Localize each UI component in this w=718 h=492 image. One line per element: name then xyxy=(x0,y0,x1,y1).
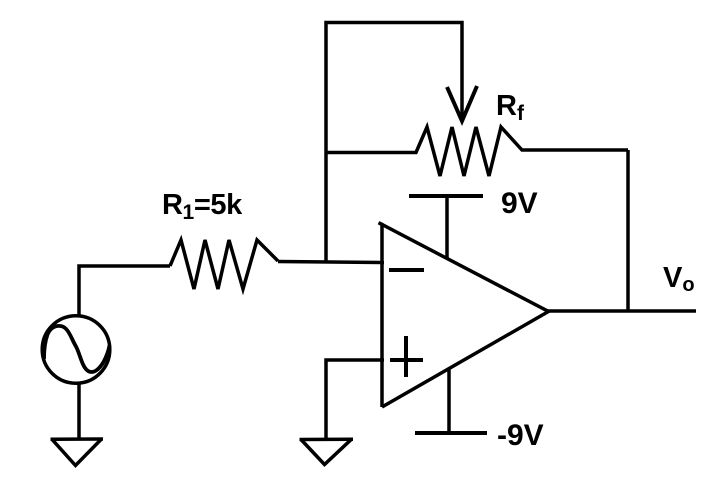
negative supply -9V xyxy=(415,368,487,433)
label Vo xyxy=(663,262,695,296)
svg-text:9V: 9V xyxy=(501,187,538,220)
op-amp minus input sign xyxy=(389,268,424,272)
label R1=5k xyxy=(162,189,243,224)
resistor Rf xyxy=(327,127,628,176)
label Rf xyxy=(496,90,525,125)
wire R1 to inverting input xyxy=(278,262,384,263)
label 9V xyxy=(501,187,538,220)
svg-text:Rf: Rf xyxy=(496,90,525,125)
wire output xyxy=(548,309,696,313)
wire non-inverting input to ground xyxy=(326,360,384,440)
potentiometer wiper arrowhead xyxy=(447,86,477,121)
ac source V1 xyxy=(42,316,110,384)
svg-text:Vo: Vo xyxy=(663,262,695,296)
svg-text:-9V: -9V xyxy=(497,419,544,452)
label -9V xyxy=(497,419,544,452)
op-amp plus input sign xyxy=(390,336,423,377)
ground non-inverting xyxy=(300,439,354,464)
wire source to R1 xyxy=(79,266,170,316)
svg-text:R1=5k: R1=5k xyxy=(162,189,243,224)
wire feedback loop top xyxy=(326,23,462,264)
op-amp U1 xyxy=(379,223,549,407)
wire source to ground xyxy=(77,383,81,440)
ground source xyxy=(51,439,104,466)
wire output feedback right xyxy=(626,150,630,311)
resistor R1 xyxy=(170,240,278,289)
positive supply 9V xyxy=(409,196,483,259)
